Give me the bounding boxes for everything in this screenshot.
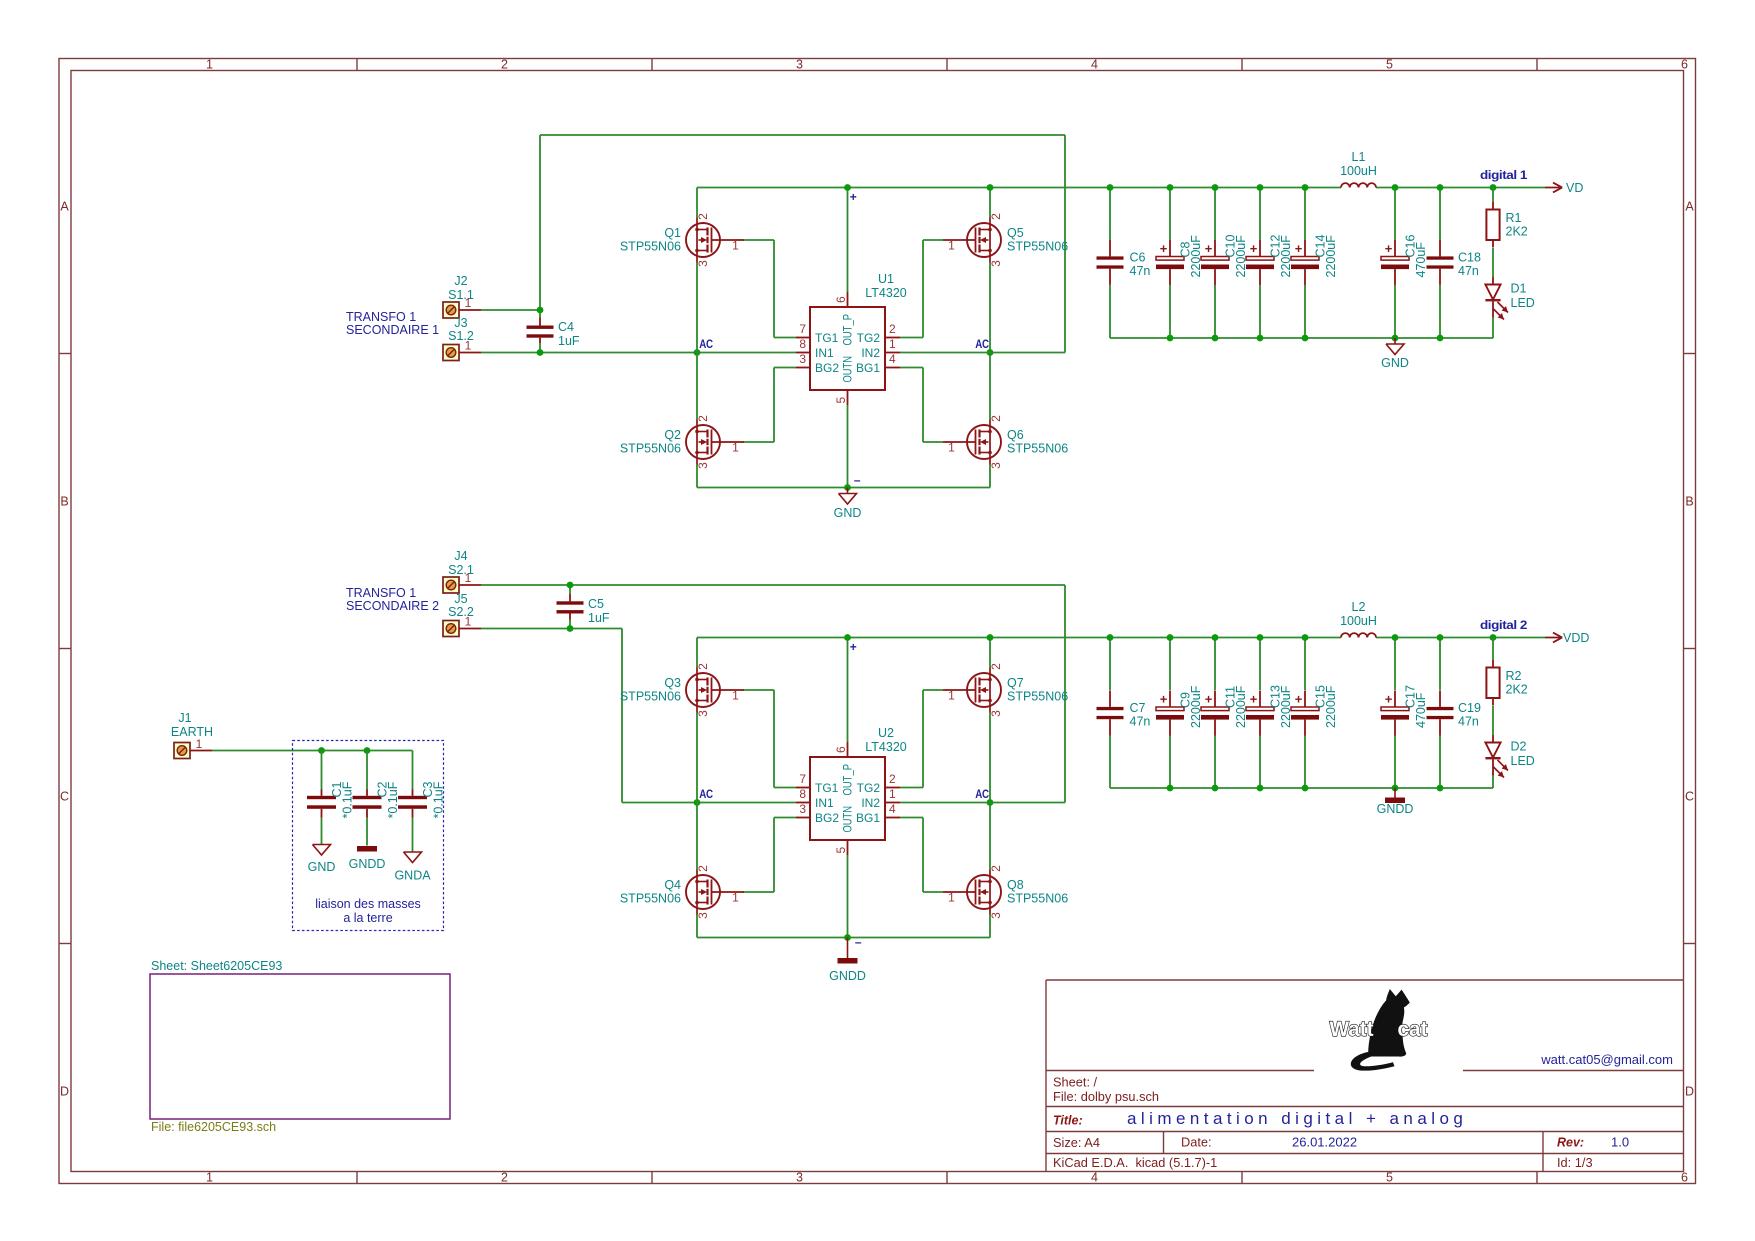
title block: [1046, 980, 1684, 1172]
svg-text:KiCad E.D.A. kicad (5.1.7)-1: KiCad E.D.A. kicad (5.1.7)-1: [1053, 1155, 1217, 1170]
svg-text:+: +: [1295, 241, 1303, 256]
wire: [743, 239, 774, 241]
wire: [773, 818, 775, 893]
junction: [844, 484, 851, 491]
pin names: [815, 764, 880, 833]
IC U2 LT4320 ideal diode bridge controller: [796, 726, 907, 855]
junction: [1212, 785, 1219, 792]
svg-text:6: 6: [1681, 58, 1688, 72]
svg-text:A: A: [60, 200, 69, 214]
wire: [743, 891, 774, 893]
svg-text:3: 3: [989, 260, 1003, 267]
capacitor C17 470uF: [1381, 685, 1428, 735]
junction: [567, 582, 574, 589]
svg-text:5: 5: [1386, 1171, 1393, 1185]
wire: [847, 855, 849, 938]
hierarchical label VD: [1545, 181, 1583, 195]
wire: [1304, 735, 1306, 788]
svg-text:GNDD: GNDD: [1377, 802, 1414, 816]
svg-text:4: 4: [1091, 58, 1098, 72]
power symbol GNDD under bridge 2: [829, 938, 866, 984]
svg-text:5: 5: [834, 397, 848, 404]
svg-text:File: file6205CE93.sch: File: file6205CE93.sch: [151, 1120, 276, 1134]
transistor Q8 STP55N06: [943, 865, 1068, 919]
svg-text:Id: 1/3: Id: 1/3: [1557, 1155, 1593, 1170]
svg-text:GNDD: GNDD: [349, 857, 386, 871]
svg-text:+: +: [1250, 692, 1258, 707]
svg-text:1uF: 1uF: [588, 611, 610, 625]
wire: [900, 802, 1065, 804]
junction: [987, 349, 994, 356]
svg-text:U2: U2: [878, 726, 894, 740]
svg-text:IN1: IN1: [815, 346, 834, 360]
junction: [1167, 335, 1174, 342]
wire: [1492, 318, 1494, 339]
capacitor C19 47n: [1427, 690, 1481, 735]
svg-text:8: 8: [799, 337, 806, 351]
svg-text:1: 1: [889, 787, 896, 801]
connector J1: [174, 711, 212, 759]
transistor Q1 STP55N06: [620, 213, 744, 267]
svg-text:Title:: Title:: [1053, 1114, 1083, 1128]
svg-text:3: 3: [989, 710, 1003, 717]
svg-text:SECONDAIRE 2: SECONDAIRE 2: [346, 599, 439, 613]
wire: [1169, 735, 1171, 788]
svg-text:3: 3: [696, 260, 710, 267]
svg-text:TG2: TG2: [857, 781, 881, 795]
wire: [540, 134, 1065, 136]
svg-text:1: 1: [948, 689, 955, 703]
junction: [694, 349, 701, 356]
svg-text:J3: J3: [454, 316, 467, 330]
wire: [696, 713, 698, 870]
svg-text:D: D: [60, 1085, 69, 1099]
svg-text:R1: R1: [1506, 211, 1522, 225]
wire: [1259, 638, 1261, 691]
junction: [1107, 184, 1114, 191]
junction: [987, 634, 994, 641]
junction: [1257, 184, 1264, 191]
svg-text:VD: VD: [1566, 181, 1583, 195]
wire: [1109, 735, 1111, 788]
svg-text:STP55N06: STP55N06: [620, 892, 681, 906]
wire: [1109, 638, 1111, 691]
transistor Q5 STP55N06: [943, 213, 1068, 267]
capacitor C8 2200uF: [1156, 235, 1203, 285]
wire: [1064, 135, 1066, 353]
svg-text:R2: R2: [1506, 669, 1522, 683]
junction: [1490, 634, 1497, 641]
wire: [481, 628, 622, 630]
connector J4: [443, 549, 481, 593]
svg-text:1: 1: [196, 737, 203, 751]
wire: [1109, 285, 1111, 338]
svg-text:OUTN: OUTN: [841, 356, 855, 383]
junction: [1437, 634, 1444, 641]
wire: [1439, 638, 1441, 691]
wire: [412, 751, 414, 790]
wire: [569, 620, 571, 629]
svg-text:100uH: 100uH: [1340, 614, 1377, 628]
svg-text:IN2: IN2: [861, 796, 880, 810]
svg-text:J5: J5: [454, 592, 467, 606]
pin numbers: [799, 746, 896, 854]
wire: [989, 465, 991, 488]
resistor R1 2K2: [1486, 202, 1527, 248]
wire: [1064, 585, 1066, 803]
svg-text:Q4: Q4: [664, 878, 681, 892]
svg-text:2: 2: [889, 772, 896, 786]
svg-text:TRANSFO 1: TRANSFO 1: [346, 586, 416, 600]
wire: [1214, 188, 1216, 241]
svg-text:D2: D2: [1511, 740, 1527, 754]
svg-text:+: +: [1295, 692, 1303, 707]
svg-text:4: 4: [1091, 1171, 1098, 1185]
junction: [1212, 335, 1219, 342]
svg-text:Q1: Q1: [664, 226, 681, 240]
svg-text:IN1: IN1: [815, 796, 834, 810]
wire: [696, 465, 698, 488]
junction: [1107, 634, 1114, 641]
junction: [318, 747, 325, 754]
wire: [1214, 285, 1216, 338]
wire: [697, 487, 990, 489]
wire: [1110, 337, 1493, 339]
svg-text:C18: C18: [1458, 251, 1481, 265]
svg-text:470uF: 470uF: [1414, 242, 1428, 278]
svg-text:digital 1: digital 1: [1480, 168, 1528, 182]
wire: [989, 713, 991, 870]
svg-text:2: 2: [696, 865, 710, 872]
svg-text:TG2: TG2: [857, 331, 881, 345]
svg-text:B: B: [1685, 495, 1693, 509]
svg-text:BG1: BG1: [856, 361, 880, 375]
svg-text:1uF: 1uF: [558, 334, 580, 348]
svg-text:L2: L2: [1352, 600, 1366, 614]
transistor Q7 STP55N06: [943, 663, 1068, 717]
junction: [1257, 634, 1264, 641]
svg-text:8: 8: [799, 787, 806, 801]
svg-text:3: 3: [796, 58, 803, 72]
svg-text:6: 6: [834, 296, 848, 303]
svg-text:2200uF: 2200uF: [1324, 685, 1338, 728]
wire: [321, 818, 323, 845]
power symbol GND under filter 1: [1381, 338, 1409, 370]
wire: [773, 690, 775, 788]
wire: [1259, 188, 1261, 241]
wire: [696, 188, 698, 218]
capacitor C15 2200uF: [1291, 685, 1338, 735]
wire: [774, 367, 796, 369]
wire: [922, 368, 924, 443]
svg-text:47n: 47n: [1130, 264, 1151, 278]
svg-text:+: +: [1205, 692, 1213, 707]
wire: [922, 818, 924, 893]
resistor R2 2K2: [1486, 660, 1527, 706]
svg-text:B: B: [60, 495, 68, 509]
svg-text:1: 1: [732, 441, 739, 455]
svg-text:2: 2: [989, 415, 1003, 422]
svg-text:OUT_P: OUT_P: [841, 764, 855, 796]
junction: [987, 184, 994, 191]
svg-text:STP55N06: STP55N06: [620, 240, 681, 254]
junction: [844, 934, 851, 941]
svg-text:BG1: BG1: [856, 811, 880, 825]
junction: [1437, 184, 1444, 191]
svg-text:L1: L1: [1352, 150, 1366, 164]
svg-text:AC: AC: [975, 787, 989, 801]
svg-text:STP55N06: STP55N06: [1007, 240, 1068, 254]
svg-text:1: 1: [732, 689, 739, 703]
LED D1: [1485, 277, 1534, 320]
title block texts: [1053, 1052, 1673, 1170]
connector J2: [443, 274, 481, 318]
svg-text:*0.1uF: *0.1uF: [341, 781, 355, 818]
svg-text:7: 7: [799, 772, 806, 786]
wire: [774, 337, 796, 339]
svg-text:C4: C4: [558, 320, 574, 334]
svg-text:+: +: [1160, 241, 1168, 256]
wire: [539, 310, 541, 318]
svg-text:STP55N06: STP55N06: [1007, 892, 1068, 906]
wire: [922, 690, 924, 788]
svg-text:GND: GND: [308, 860, 336, 874]
svg-text:–: –: [855, 935, 862, 949]
svg-text:7: 7: [799, 322, 806, 336]
junction: [1212, 184, 1219, 191]
svg-text:47n: 47n: [1458, 715, 1479, 729]
wire: [1492, 248, 1494, 277]
svg-text:100uH: 100uH: [1340, 164, 1377, 178]
junction: [1212, 634, 1219, 641]
wire: [847, 405, 849, 488]
svg-text:GND: GND: [1381, 356, 1409, 370]
svg-text:1: 1: [732, 239, 739, 253]
svg-text:+: +: [1205, 241, 1213, 256]
wire: [697, 637, 1341, 639]
transistor Q6 STP55N06: [943, 415, 1068, 469]
svg-text:TRANSFO 1: TRANSFO 1: [346, 310, 416, 324]
wire: [366, 818, 368, 846]
capacitor C18 47n: [1427, 240, 1481, 285]
junction: [1437, 785, 1444, 792]
svg-text:BG2: BG2: [815, 361, 839, 375]
junction: [1257, 785, 1264, 792]
svg-text:2200uF: 2200uF: [1324, 235, 1338, 278]
wire: [481, 352, 796, 354]
junction: [537, 349, 544, 356]
svg-text:3: 3: [799, 802, 806, 816]
wire: [923, 891, 943, 893]
svg-text:Sheet: /: Sheet: /: [1053, 1075, 1098, 1090]
wire: [621, 629, 623, 803]
wire: [923, 689, 943, 691]
junction: [1167, 785, 1174, 792]
svg-text:Size: A4: Size: A4: [1053, 1135, 1100, 1150]
svg-text:TG1: TG1: [815, 331, 839, 345]
junction: [1392, 634, 1399, 641]
svg-text:+: +: [1385, 692, 1393, 707]
svg-text:1: 1: [465, 339, 472, 353]
power symbol GND: [308, 845, 336, 875]
svg-text:OUTN: OUTN: [841, 806, 855, 833]
svg-text:Q5: Q5: [1007, 226, 1024, 240]
svg-text:1: 1: [732, 891, 739, 905]
svg-text:C5: C5: [588, 597, 604, 611]
svg-text:A: A: [1685, 200, 1694, 214]
junction: [1302, 335, 1309, 342]
svg-text:STP55N06: STP55N06: [1007, 690, 1068, 704]
hierarchical label VDD: [1545, 631, 1589, 645]
wire: [539, 343, 541, 353]
wire: [1214, 638, 1216, 691]
IC U1 LT4320 ideal diode bridge controller: [796, 272, 907, 405]
svg-text:6: 6: [834, 746, 848, 753]
wire: [847, 188, 849, 293]
capacitor C11 2200uF: [1201, 685, 1248, 735]
wire: [1110, 787, 1493, 789]
wire: [1214, 735, 1216, 788]
svg-text:Watt: Watt: [1330, 1018, 1374, 1041]
svg-text:J2: J2: [454, 274, 467, 288]
svg-text:+: +: [850, 640, 857, 654]
svg-text:26.01.2022: 26.01.2022: [1292, 1135, 1357, 1150]
svg-text:J4: J4: [454, 549, 467, 563]
wire: [1259, 735, 1261, 788]
svg-text:J1: J1: [178, 711, 191, 725]
junction: [694, 799, 701, 806]
wire: [900, 817, 923, 819]
svg-text:IN2: IN2: [861, 346, 880, 360]
capacitor C6 47n: [1097, 240, 1151, 285]
svg-text:Sheet: Sheet6205CE93: Sheet: Sheet6205CE93: [151, 959, 282, 973]
wire: [1169, 285, 1171, 338]
capacitor C13 2200uF: [1246, 685, 1293, 735]
wire: [1439, 285, 1441, 338]
svg-text:STP55N06: STP55N06: [620, 690, 681, 704]
wire: [989, 263, 991, 420]
svg-text:U1: U1: [878, 272, 894, 286]
svg-text:1: 1: [948, 239, 955, 253]
svg-text:2: 2: [889, 322, 896, 336]
svg-text:4: 4: [889, 802, 896, 816]
wire: [697, 937, 990, 939]
wire: [989, 188, 991, 218]
svg-text:LED: LED: [1511, 754, 1535, 768]
capacitor C14 2200uF: [1291, 235, 1338, 285]
svg-text:LT4320: LT4320: [865, 286, 907, 300]
LED D2: [1485, 735, 1534, 778]
svg-text:cat: cat: [1398, 1018, 1428, 1041]
svg-text:3: 3: [696, 710, 710, 717]
svg-text:3: 3: [799, 352, 806, 366]
svg-text:2: 2: [696, 213, 710, 220]
svg-text:GNDD: GNDD: [829, 969, 866, 983]
svg-text:2: 2: [989, 865, 1003, 872]
transistor Q4 STP55N06: [620, 865, 744, 919]
svg-text:1: 1: [889, 337, 896, 351]
svg-text:47n: 47n: [1458, 264, 1479, 278]
wire: [481, 584, 1065, 586]
svg-text:OUT_P: OUT_P: [841, 314, 855, 346]
wire: [923, 239, 943, 241]
junction: [1490, 184, 1497, 191]
wire: [1492, 188, 1494, 203]
wire: [900, 367, 923, 369]
svg-text:3: 3: [796, 1171, 803, 1185]
wire: [1169, 638, 1171, 691]
svg-text:liaison des masses: liaison des masses: [315, 897, 421, 911]
svg-text:SECONDAIRE 1: SECONDAIRE 1: [346, 323, 439, 337]
connector J5: [443, 592, 481, 637]
svg-text:5: 5: [834, 847, 848, 854]
svg-text:+: +: [1250, 241, 1258, 256]
svg-text:AC: AC: [975, 337, 989, 351]
svg-text:Date:: Date:: [1181, 1135, 1212, 1150]
svg-text:STP55N06: STP55N06: [1007, 442, 1068, 456]
wire: [1376, 637, 1545, 639]
wire: [1439, 188, 1441, 241]
wire: [1492, 706, 1494, 735]
text note TRANSFO 1 SECONDAIRE 1: [346, 310, 439, 337]
wire: [989, 915, 991, 938]
inductor L2 100uH: [1340, 600, 1377, 638]
svg-text:2: 2: [501, 1171, 508, 1185]
wire: [743, 441, 774, 443]
junction: [1167, 634, 1174, 641]
wire: [481, 309, 540, 311]
wire: [1394, 735, 1396, 788]
power symbol GND under bridge 1: [834, 488, 862, 521]
junction: [987, 799, 994, 806]
wire: [900, 337, 923, 339]
junction: [844, 184, 851, 191]
svg-text:+: +: [1160, 692, 1168, 707]
svg-text:Rev:: Rev:: [1557, 1136, 1584, 1150]
capacitor C10 2200uF: [1201, 235, 1248, 285]
wire: [1394, 285, 1396, 338]
wire: [622, 802, 796, 804]
wire: [774, 817, 796, 819]
svg-text:Q3: Q3: [664, 676, 681, 690]
svg-text:1: 1: [206, 58, 213, 72]
svg-text:STP55N06: STP55N06: [620, 442, 681, 456]
svg-text:1: 1: [948, 891, 955, 905]
svg-text:D: D: [1685, 1085, 1694, 1099]
junction: [1302, 785, 1309, 792]
wire: [774, 787, 796, 789]
svg-text:C19: C19: [1458, 701, 1481, 715]
svg-text:watt.cat05@gmail.com: watt.cat05@gmail.com: [1540, 1052, 1673, 1067]
svg-text:LED: LED: [1511, 296, 1535, 310]
svg-text:470uF: 470uF: [1414, 692, 1428, 728]
text note TRANSFO 1 SECONDAIRE 2: [346, 586, 439, 613]
svg-text:1.0: 1.0: [1611, 1135, 1629, 1150]
junction: [1392, 184, 1399, 191]
svg-text:1: 1: [948, 441, 955, 455]
capacitor C16 470uF: [1381, 235, 1428, 285]
pin names: [815, 314, 880, 383]
svg-text:1: 1: [465, 615, 472, 629]
connector J3: [443, 316, 481, 361]
wire: [1169, 188, 1171, 241]
power symbol GNDD: [349, 846, 386, 871]
svg-text:a la terre: a la terre: [343, 911, 392, 925]
svg-text:1: 1: [206, 1171, 213, 1185]
power symbol GNDD under filter 2: [1377, 788, 1414, 816]
svg-text:3: 3: [989, 912, 1003, 919]
logo Watt cat: [1330, 989, 1428, 1071]
